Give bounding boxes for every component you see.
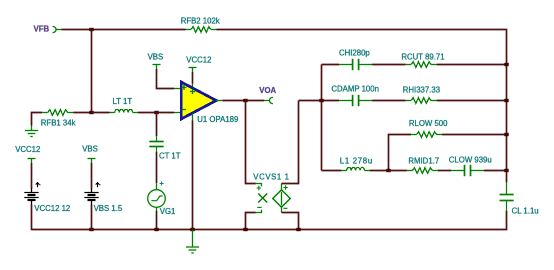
terminal VBS (153, 65, 161, 70)
label - control (257, 206, 261, 208)
wire left rail row2-L1 row (321, 101, 323, 171)
svg-text:RFB1 34k: RFB1 34k (41, 119, 76, 128)
svg-text:CHI280p: CHI280p (339, 48, 370, 57)
pin non-inverting input (green stub) (174, 88, 181, 90)
junction right rail L1 row (504, 169, 508, 172)
svg-text:RMID1.7: RMID1.7 (408, 157, 439, 166)
svg-text:VBS: VBS (148, 52, 164, 61)
wire control - to ground rail (246, 213, 256, 230)
wire left rail row1-row2 (321, 65, 323, 101)
junction left rail row2 (319, 99, 323, 102)
junction L1/RMID/RLOW (386, 169, 390, 172)
junction mid row / VFB column (89, 111, 93, 114)
junction rail VCVS control (243, 228, 247, 231)
wire junction to LT (92, 112, 110, 114)
wire RHI to right rail (437, 100, 507, 102)
junction VFB column (89, 28, 93, 31)
svg-text:CDAMP 100n: CDAMP 100n (331, 84, 379, 93)
junction right rail row2 (504, 99, 508, 102)
wire battery VBS to rail (91, 205, 93, 230)
wire LT to CT junction (138, 112, 157, 114)
battery VCC12 (24, 182, 40, 204)
junction rail VG1 (154, 228, 158, 231)
pin V- (green stub) (192, 113, 194, 121)
svg-text:VG1: VG1 (160, 207, 176, 216)
svg-text:VOA: VOA (259, 86, 276, 95)
svg-text:VCC12: VCC12 (15, 145, 40, 154)
capacitor CLOW (451, 165, 484, 176)
wire diamond + up to network (282, 101, 299, 184)
wire VCC12 terminal to battery (31, 163, 33, 189)
svg-text:RHI337.33: RHI337.33 (403, 86, 440, 95)
resistor RCUT (406, 62, 437, 68)
VCVS1 output diamond (273, 184, 291, 213)
ground left (25, 126, 38, 137)
battery VBS (84, 182, 100, 204)
wire VOA down to VCVS control + (246, 101, 256, 184)
svg-text:VCC12 12: VCC12 12 (34, 204, 70, 213)
inductor LT (110, 109, 138, 112)
resistor RMID (407, 168, 438, 174)
pin inverting input (green stub) (174, 112, 181, 114)
wire L1 row left (322, 170, 342, 172)
wire output to VOA junction (222, 100, 245, 102)
wire junction to RMID (389, 170, 407, 172)
wire right rail down (506, 29, 508, 171)
svg-text:CLOW 939u: CLOW 939u (449, 156, 492, 165)
op-amp U1 OPA189 (181, 82, 216, 119)
wire RFB2 to top-right corner (217, 29, 507, 31)
pin V+ (green stub) (192, 84, 194, 90)
wire battery VCC12 to rail (31, 205, 33, 231)
port VOA (264, 97, 273, 103)
svg-text:RLOW 500: RLOW 500 (409, 119, 448, 128)
label + control (257, 186, 261, 190)
wire CT to VG1 (156, 152, 158, 183)
wire VG1 to ground rail (156, 211, 158, 230)
label + of VG1 (160, 182, 164, 186)
resistor RFB2 (186, 27, 217, 33)
VCVS1 X symbol (258, 194, 267, 203)
wire RFB1 to junction (73, 112, 91, 114)
wire op-amp V- down to ground rail (192, 121, 194, 230)
junction VOA (243, 99, 247, 102)
port VFB (53, 26, 62, 32)
junction rail op-amp V- (190, 228, 194, 231)
wire to inverting input (157, 112, 175, 114)
VCVS1 control - hook (256, 210, 262, 213)
wire VFB column down (91, 30, 93, 113)
wire VCC12 to op-amp V+ pin (192, 72, 194, 84)
wire RLOW row left corner (389, 135, 412, 171)
wire CDAMP to RHI (372, 100, 406, 102)
wire VBS to non-inverting input (157, 69, 175, 89)
resistor RFB1 (42, 110, 73, 116)
svg-text:VFB: VFB (34, 24, 50, 33)
wire VOA junction to port (246, 100, 265, 102)
resistor RHI (406, 98, 437, 104)
svg-text:VBS 1.5: VBS 1.5 (94, 204, 123, 213)
ground center (186, 230, 199, 254)
capacitor CL (500, 182, 514, 210)
wire RCUT to right rail (437, 64, 507, 66)
terminal VCC12 (189, 68, 197, 73)
capacitor CHI (339, 59, 372, 70)
wire right rail to CL (506, 171, 508, 183)
wire mid row left corner (32, 113, 43, 126)
inductor L1 (341, 167, 369, 170)
svg-text:CL 1.1u: CL 1.1u (512, 207, 539, 216)
svg-text:RFB2 102k: RFB2 102k (181, 16, 220, 25)
capacitor CDAMP (339, 95, 372, 106)
junction CT branch (154, 111, 158, 114)
svg-text:L1 278u: L1 278u (340, 156, 373, 165)
wire row1 left (322, 64, 340, 66)
wire VFB to RFB2 (62, 29, 186, 31)
wire diamond - to ground rail (282, 213, 299, 230)
terminal VCC12 battery (28, 159, 36, 164)
capacitor CT (149, 136, 163, 152)
label - diamond (283, 207, 287, 209)
wire CHI to RCUT (372, 64, 406, 66)
junction rail VCVS output (296, 228, 300, 231)
wire RMID to CLOW (438, 170, 451, 172)
wire RLOW to right rail (442, 134, 506, 136)
wire VBS terminal to battery (91, 163, 93, 189)
resistor RLOW (411, 132, 442, 138)
junction rail VBS (89, 228, 93, 231)
capacitor CT branch wire (156, 113, 158, 137)
wire L1 to junction (370, 170, 389, 172)
svg-text:VCVS1 1: VCVS1 1 (253, 173, 289, 182)
VCVS1 control + hook (256, 184, 262, 187)
wire row2 from corner to CDAMP (299, 100, 340, 102)
terminal VBS battery (88, 159, 96, 164)
svg-text:CT 1T: CT 1T (159, 152, 181, 161)
source VG1 (148, 183, 166, 211)
svg-text:VCC12: VCC12 (186, 56, 211, 65)
svg-text:VBS: VBS (82, 144, 98, 153)
junction right rail RLOW row (504, 133, 508, 136)
svg-text:RCUT 89.71: RCUT 89.71 (401, 52, 444, 61)
label + diamond (283, 185, 287, 189)
pin output (green stub) (216, 100, 223, 102)
svg-text:LT 1T: LT 1T (113, 97, 133, 106)
junction right rail row1 (504, 63, 508, 66)
wire CLOW to right rail (484, 170, 507, 172)
svg-text:U1 OPA189: U1 OPA189 (197, 115, 238, 124)
wire CL down to ground rail (32, 211, 507, 230)
